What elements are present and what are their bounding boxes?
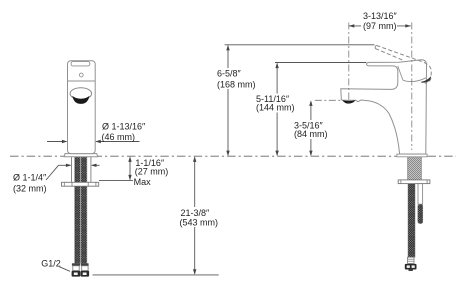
svg-text:(97 mm): (97 mm)	[363, 21, 397, 31]
svg-text:(84 mm): (84 mm)	[294, 129, 328, 139]
svg-text:(32 mm): (32 mm)	[13, 184, 47, 194]
svg-text:(543 mm): (543 mm)	[180, 218, 219, 228]
svg-text:(168 mm): (168 mm)	[217, 80, 256, 90]
svg-text:G1/2: G1/2	[41, 259, 61, 269]
svg-text:Ø 1-1/4″: Ø 1-1/4″	[13, 173, 47, 183]
svg-text:Ø 1-13/16″: Ø 1-13/16″	[102, 122, 146, 132]
svg-text:6-5/8″: 6-5/8″	[217, 69, 242, 79]
svg-text:21-3/8″: 21-3/8″	[181, 208, 211, 218]
svg-text:(46 mm): (46 mm)	[102, 132, 136, 142]
svg-text:Max: Max	[134, 177, 152, 187]
svg-text:3-13/16″: 3-13/16″	[363, 11, 398, 21]
svg-text:(144 mm): (144 mm)	[256, 103, 295, 113]
svg-text:(27 mm): (27 mm)	[135, 166, 169, 176]
